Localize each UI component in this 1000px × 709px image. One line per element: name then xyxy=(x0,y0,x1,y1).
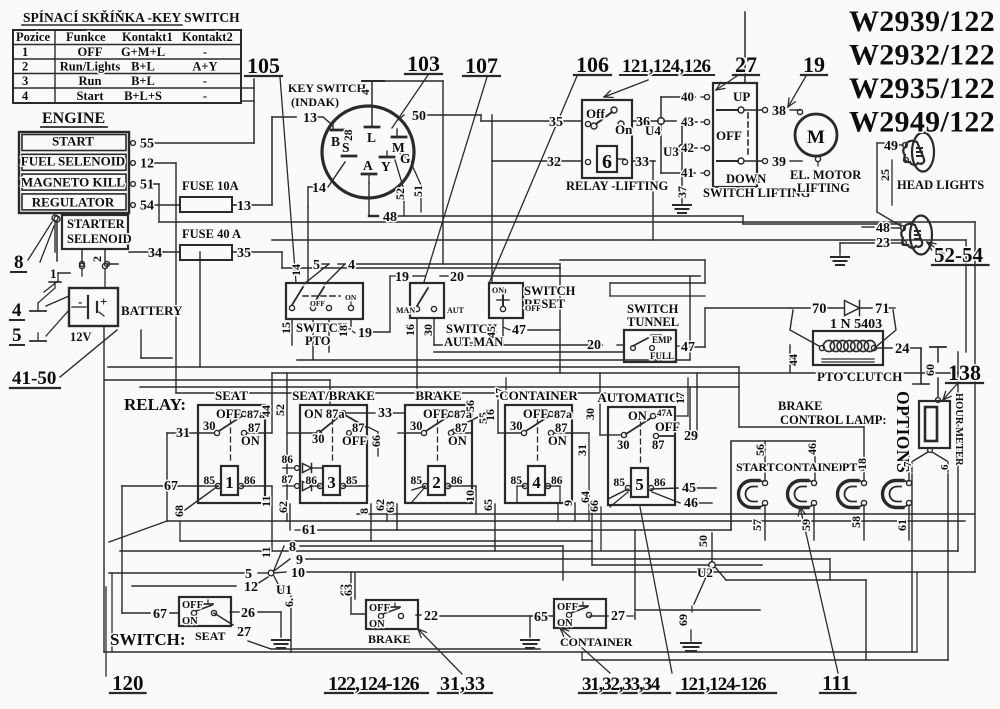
svg-text:86: 86 xyxy=(451,475,463,487)
svg-text:UP: UP xyxy=(733,89,750,104)
svg-text:86: 86 xyxy=(244,475,256,487)
svg-text:EL. MOTOR: EL. MOTOR xyxy=(790,168,862,182)
svg-text:3: 3 xyxy=(327,473,336,492)
svg-text:Run/Lights: Run/Lights xyxy=(60,60,121,74)
svg-text:56: 56 xyxy=(753,444,767,456)
svg-text:OFF: OFF xyxy=(716,128,742,143)
svg-text:LIFTING: LIFTING xyxy=(797,181,850,195)
svg-text:W2935/122: W2935/122 xyxy=(849,72,995,105)
svg-text:50: 50 xyxy=(696,535,710,547)
svg-text:ON: ON xyxy=(369,619,385,630)
svg-text:61: 61 xyxy=(895,519,909,531)
svg-text:59: 59 xyxy=(799,519,813,531)
svg-text:SWITCH LIFTING: SWITCH LIFTING xyxy=(703,186,811,200)
svg-text:4: 4 xyxy=(360,89,372,95)
svg-text:KEY SWITCH: KEY SWITCH xyxy=(288,81,367,95)
svg-text:46: 46 xyxy=(684,496,698,511)
svg-text:START: START xyxy=(736,460,775,474)
svg-text:-: - xyxy=(203,74,207,88)
svg-text:85: 85 xyxy=(204,475,216,487)
svg-text:48: 48 xyxy=(383,210,397,225)
svg-text:OFF: OFF xyxy=(342,434,367,448)
svg-text:OFF: OFF xyxy=(78,45,103,59)
svg-text:Start: Start xyxy=(76,89,104,103)
svg-text:26: 26 xyxy=(241,606,255,621)
svg-text:CONTROL LAMP:: CONTROL LAMP: xyxy=(780,413,887,427)
svg-text:W2932/122: W2932/122 xyxy=(849,39,995,72)
svg-text:51: 51 xyxy=(140,178,154,193)
svg-text:7: 7 xyxy=(902,461,914,467)
svg-text:U4: U4 xyxy=(645,123,661,138)
svg-text:G: G xyxy=(400,151,411,166)
svg-text:11: 11 xyxy=(259,547,273,558)
svg-text:10: 10 xyxy=(463,490,477,502)
svg-text:8: 8 xyxy=(357,508,371,514)
svg-text:ON: ON xyxy=(241,434,260,448)
svg-text:20: 20 xyxy=(450,270,464,285)
svg-text:3: 3 xyxy=(22,74,28,88)
svg-text:16: 16 xyxy=(483,409,497,421)
svg-text:W2939/122: W2939/122 xyxy=(849,5,995,38)
svg-text:OPTIONS: OPTIONS xyxy=(893,391,913,473)
svg-text:G+M+L: G+M+L xyxy=(121,45,165,59)
svg-text:1: 1 xyxy=(50,266,57,281)
svg-text:Kontakt1: Kontakt1 xyxy=(122,30,173,44)
svg-text:SEAT: SEAT xyxy=(215,388,248,403)
svg-text:27: 27 xyxy=(611,609,625,624)
svg-text:87: 87 xyxy=(352,421,365,435)
svg-text:+: + xyxy=(100,294,107,309)
svg-text:44: 44 xyxy=(259,405,273,417)
svg-text:MAN: MAN xyxy=(396,306,415,315)
svg-text:29: 29 xyxy=(684,429,698,444)
svg-text:31: 31 xyxy=(176,426,190,441)
svg-text:BRAKE: BRAKE xyxy=(778,399,822,413)
svg-text:87: 87 xyxy=(248,421,261,435)
svg-text:6: 6 xyxy=(602,151,612,173)
svg-text:87: 87 xyxy=(282,474,294,486)
svg-text:86: 86 xyxy=(654,477,666,489)
svg-text:33: 33 xyxy=(635,155,649,170)
svg-text:U3: U3 xyxy=(663,144,679,159)
svg-text:13: 13 xyxy=(237,199,251,214)
svg-text:DOWN: DOWN xyxy=(726,172,766,186)
svg-text:13: 13 xyxy=(303,111,317,126)
svg-text:33: 33 xyxy=(378,406,392,421)
svg-text:30: 30 xyxy=(583,408,597,420)
svg-text:30: 30 xyxy=(312,432,325,446)
svg-text:35: 35 xyxy=(237,246,251,261)
svg-text:31: 31 xyxy=(575,444,589,456)
svg-text:87: 87 xyxy=(455,421,468,435)
svg-text:W2949/122: W2949/122 xyxy=(849,106,995,139)
svg-text:S: S xyxy=(342,140,350,155)
svg-text:85: 85 xyxy=(511,475,523,487)
svg-text:34: 34 xyxy=(148,246,162,261)
svg-text:47: 47 xyxy=(512,323,526,338)
svg-text:39: 39 xyxy=(772,155,786,170)
svg-text:1 N 5403: 1 N 5403 xyxy=(830,317,882,332)
svg-text:SWITCH: SWITCH xyxy=(524,284,576,298)
svg-text:22: 22 xyxy=(424,609,438,624)
svg-text:Funkce: Funkce xyxy=(66,30,106,44)
svg-text:111: 111 xyxy=(822,671,851,695)
svg-text:2: 2 xyxy=(90,256,104,262)
svg-text:46: 46 xyxy=(805,443,819,455)
svg-text:68: 68 xyxy=(172,505,186,517)
svg-text:HOUR METER: HOUR METER xyxy=(953,393,964,466)
svg-text:OFF: OFF xyxy=(557,602,578,613)
svg-text:STARTER: STARTER xyxy=(67,217,126,231)
svg-text:62: 62 xyxy=(276,501,290,513)
svg-text:CONTAINER: CONTAINER xyxy=(499,388,578,403)
svg-text:25: 25 xyxy=(878,169,892,181)
svg-text:58: 58 xyxy=(849,516,863,528)
svg-text:9: 9 xyxy=(561,500,575,506)
svg-text:TUNNEL: TUNNEL xyxy=(627,315,679,329)
svg-text:30: 30 xyxy=(510,419,523,433)
svg-text:15: 15 xyxy=(279,322,293,334)
svg-text:31,32,33,34: 31,32,33,34 xyxy=(582,674,661,695)
svg-text:OFF: OFF xyxy=(655,420,680,434)
svg-text:24: 24 xyxy=(895,341,910,357)
svg-text:SEAT/BRAKE: SEAT/BRAKE xyxy=(292,388,375,403)
svg-text:50: 50 xyxy=(412,109,426,124)
svg-text:44: 44 xyxy=(786,354,800,366)
svg-text:27: 27 xyxy=(735,52,757,77)
svg-text:SWITCH:: SWITCH: xyxy=(110,630,186,649)
svg-text:51: 51 xyxy=(411,185,425,197)
svg-text:19: 19 xyxy=(358,326,372,341)
svg-text:4: 4 xyxy=(532,473,541,492)
svg-text:4: 4 xyxy=(12,300,22,321)
svg-text:FUEL SELENOID: FUEL SELENOID xyxy=(21,154,125,169)
svg-text:5: 5 xyxy=(635,475,644,494)
svg-text:2: 2 xyxy=(22,60,28,74)
svg-text:AUT: AUT xyxy=(447,306,465,315)
svg-text:66: 66 xyxy=(369,435,383,447)
svg-text:18: 18 xyxy=(855,458,869,470)
svg-text:60: 60 xyxy=(923,364,937,376)
svg-text:8: 8 xyxy=(14,252,24,273)
svg-text:69: 69 xyxy=(676,614,690,626)
svg-text:ON: ON xyxy=(182,616,198,627)
svg-text:105: 105 xyxy=(247,53,280,78)
svg-text:30: 30 xyxy=(203,419,216,433)
svg-text:19: 19 xyxy=(803,52,825,77)
svg-text:30: 30 xyxy=(421,324,435,336)
svg-text:67: 67 xyxy=(164,479,178,494)
svg-text:120: 120 xyxy=(112,671,144,695)
svg-text:35: 35 xyxy=(549,115,563,130)
svg-text:85: 85 xyxy=(411,475,423,487)
svg-text:RELAY -LIFTING: RELAY -LIFTING xyxy=(566,179,668,193)
svg-text:121,124-126: 121,124-126 xyxy=(680,674,766,695)
svg-text:BRAKE: BRAKE xyxy=(415,388,461,403)
svg-text:ON: ON xyxy=(345,293,357,302)
svg-text:SELENOID: SELENOID xyxy=(67,232,132,246)
svg-text:FUSE 40 A: FUSE 40 A xyxy=(182,227,241,241)
svg-text:16: 16 xyxy=(403,324,417,336)
svg-text:PTO: PTO xyxy=(305,334,331,348)
svg-text:43: 43 xyxy=(681,114,695,129)
svg-text:12V: 12V xyxy=(70,330,92,344)
svg-text:OFF: OFF xyxy=(216,407,241,421)
svg-text:4: 4 xyxy=(348,258,355,273)
svg-text:38: 38 xyxy=(772,104,786,119)
svg-text:138: 138 xyxy=(948,360,981,385)
svg-text:ON: ON xyxy=(492,286,504,295)
svg-text:START: START xyxy=(52,134,94,149)
svg-text:45: 45 xyxy=(484,326,498,338)
svg-text:(INDAK): (INDAK) xyxy=(291,95,339,109)
svg-text:87: 87 xyxy=(652,438,665,452)
svg-text:FUSE 10A: FUSE 10A xyxy=(182,179,239,193)
svg-text:B+L+S: B+L+S xyxy=(124,89,162,103)
svg-text:55: 55 xyxy=(140,137,154,152)
svg-text:CONTAINER: CONTAINER xyxy=(775,460,848,474)
svg-text:SPÍNACÍ SKŘÍŇKA -KEY SWITCH: SPÍNACÍ SKŘÍŇKA -KEY SWITCH xyxy=(23,10,240,25)
svg-text:OFF: OFF xyxy=(369,603,390,614)
svg-text:61: 61 xyxy=(302,523,316,538)
svg-text:B+L: B+L xyxy=(131,74,155,88)
svg-text:CONTAINER: CONTAINER xyxy=(560,635,633,649)
svg-text:BATTERY: BATTERY xyxy=(121,303,183,318)
svg-text:27: 27 xyxy=(237,625,251,640)
svg-text:RELAY:: RELAY: xyxy=(124,395,186,414)
svg-text:OFF: OFF xyxy=(423,407,448,421)
svg-text:EMP: EMP xyxy=(652,335,672,345)
svg-text:45: 45 xyxy=(682,481,696,496)
svg-text:M: M xyxy=(807,127,825,148)
svg-text:85: 85 xyxy=(614,477,626,489)
svg-text:4: 4 xyxy=(22,89,29,103)
svg-text:11: 11 xyxy=(259,496,273,507)
svg-text:41-50: 41-50 xyxy=(12,368,56,389)
svg-text:70: 70 xyxy=(812,301,827,317)
svg-text:14: 14 xyxy=(289,264,303,276)
svg-text:20: 20 xyxy=(587,338,601,353)
svg-text:87: 87 xyxy=(555,421,568,435)
svg-text:Kontakt2: Kontakt2 xyxy=(182,30,233,44)
svg-text:ENGINE: ENGINE xyxy=(42,110,105,127)
svg-text:122,124-126: 122,124-126 xyxy=(328,673,420,695)
svg-text:12: 12 xyxy=(244,580,258,595)
svg-text:10: 10 xyxy=(291,566,305,581)
svg-text:52: 52 xyxy=(273,404,287,416)
svg-text:L: L xyxy=(367,130,376,145)
svg-text:Pozice: Pozice xyxy=(16,30,50,44)
svg-text:ON: ON xyxy=(557,618,573,629)
svg-text:FULL: FULL xyxy=(650,351,674,361)
svg-text:SWITCH: SWITCH xyxy=(627,302,679,316)
svg-text:52-54: 52-54 xyxy=(934,243,983,267)
svg-text:17: 17 xyxy=(673,392,687,404)
svg-text:107: 107 xyxy=(465,53,498,78)
svg-text:18: 18 xyxy=(336,325,350,337)
svg-text:71: 71 xyxy=(875,301,890,317)
svg-text:OFF: OFF xyxy=(523,407,548,421)
svg-text:SEAT: SEAT xyxy=(195,629,225,643)
svg-text:A+Y: A+Y xyxy=(192,60,217,74)
svg-text:65: 65 xyxy=(481,499,495,511)
svg-text:86: 86 xyxy=(306,475,318,487)
svg-text:32: 32 xyxy=(547,155,561,170)
svg-text:5: 5 xyxy=(12,325,22,346)
svg-text:30: 30 xyxy=(617,438,630,452)
svg-text:Off: Off xyxy=(586,106,605,121)
svg-text:6.: 6. xyxy=(282,598,296,607)
svg-text:12: 12 xyxy=(140,157,154,172)
svg-text:106: 106 xyxy=(576,52,609,77)
svg-text:65: 65 xyxy=(534,610,548,625)
svg-text:A: A xyxy=(363,158,373,173)
svg-text:U1: U1 xyxy=(276,582,292,597)
svg-text:8: 8 xyxy=(289,540,296,555)
svg-text:6: 6 xyxy=(939,464,951,470)
svg-text:1: 1 xyxy=(225,473,234,492)
svg-text:66: 66 xyxy=(587,500,601,512)
svg-text:ON: ON xyxy=(628,409,647,423)
svg-text:37: 37 xyxy=(675,186,689,198)
svg-text:1: 1 xyxy=(22,45,28,59)
svg-text:67: 67 xyxy=(153,607,167,622)
svg-text:85: 85 xyxy=(346,475,358,487)
svg-text:40: 40 xyxy=(681,89,694,104)
svg-text:-: - xyxy=(78,294,82,309)
svg-text:121,124,126: 121,124,126 xyxy=(622,56,711,77)
svg-text:54: 54 xyxy=(140,199,154,214)
svg-text:86: 86 xyxy=(551,475,563,487)
svg-text:103: 103 xyxy=(407,51,440,76)
svg-text:19: 19 xyxy=(395,270,409,285)
svg-text:47: 47 xyxy=(681,340,695,355)
svg-text:57: 57 xyxy=(750,519,764,531)
svg-text:86: 86 xyxy=(282,454,294,466)
svg-text:28: 28 xyxy=(343,129,355,141)
svg-text:52: 52 xyxy=(393,188,407,200)
svg-text:PTO CLUTCH: PTO CLUTCH xyxy=(817,369,902,384)
svg-text:47A: 47A xyxy=(657,408,673,418)
svg-text:87a: 87a xyxy=(554,407,572,421)
svg-text:B: B xyxy=(331,134,340,149)
svg-text:ON: ON xyxy=(448,434,467,448)
svg-text:2: 2 xyxy=(432,473,441,492)
svg-text:MAGNETO KILL: MAGNETO KILL xyxy=(21,175,125,190)
svg-text:OFF: OFF xyxy=(310,299,325,308)
svg-text:OFF: OFF xyxy=(182,600,203,611)
svg-text:5: 5 xyxy=(313,258,320,273)
svg-text:42: 42 xyxy=(681,140,694,155)
svg-text:31,33: 31,33 xyxy=(440,673,485,695)
svg-text:14: 14 xyxy=(312,181,326,196)
svg-text:41: 41 xyxy=(681,165,694,180)
svg-text:U2: U2 xyxy=(697,565,713,580)
svg-text:-: - xyxy=(203,45,207,59)
svg-text:HEAD LIGHTS: HEAD LIGHTS xyxy=(897,178,984,192)
svg-text:B+L: B+L xyxy=(131,60,155,74)
svg-text:Run: Run xyxy=(79,74,102,88)
svg-text:49: 49 xyxy=(884,139,898,154)
svg-text:48: 48 xyxy=(876,221,890,236)
svg-text:23: 23 xyxy=(876,236,890,251)
svg-text:Y: Y xyxy=(381,159,391,174)
svg-text:ON: ON xyxy=(548,434,567,448)
svg-text:ON 87a: ON 87a xyxy=(304,407,345,421)
svg-text:-: - xyxy=(203,89,207,103)
svg-text:30: 30 xyxy=(410,419,423,433)
svg-text:On: On xyxy=(615,122,633,137)
svg-text:63: 63 xyxy=(341,584,355,596)
svg-text:REGULATOR: REGULATOR xyxy=(32,195,115,210)
svg-text:BRAKE: BRAKE xyxy=(368,632,411,646)
svg-text:56: 56 xyxy=(463,400,477,412)
svg-text:63: 63 xyxy=(383,501,397,513)
svg-text:OFF: OFF xyxy=(525,304,541,313)
